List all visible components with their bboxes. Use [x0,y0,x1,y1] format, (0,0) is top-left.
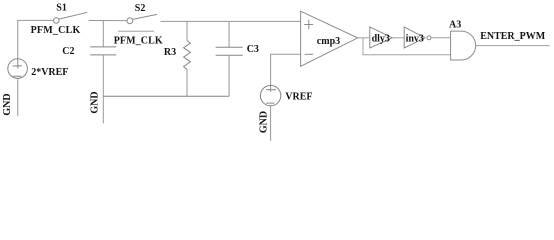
wire: R3 bottom to rail [186,70,188,97]
capacitor C2 [90,47,116,55]
svg-text:C3: C3 [247,44,259,55]
wire: feedback from cmp3 output to AND gate lower input [363,38,451,55]
op-amp comparator cmp3 [301,11,358,66]
AND gate A3 [451,31,476,60]
svg-text:inv3: inv3 [406,33,424,44]
switch S1 [54,12,88,23]
svg-text:PFM_CLK: PFM_CLK [114,36,163,47]
wire: dly3 to inv3 [392,37,404,39]
wire: S2 to cmp3 plus input [161,20,301,22]
wire: C3 bottom to rail [228,55,230,96]
svg-text:C2: C2 [62,46,74,57]
svg-text:2*VREF: 2*VREF [31,67,68,78]
wire: R3 stem from top net [186,21,188,40]
wire: ground stem (middle) [102,96,104,123]
wire: cmp3 output to dly3 [358,37,370,39]
wire: VREF to cmp3 minus input [271,54,301,92]
wire: C2 stem from top net [102,21,104,47]
svg-text:GND: GND [89,91,100,113]
voltage source 2*VREF [8,59,28,79]
wire: A3 output ENTER_PWM [476,45,550,47]
wire: C2 bottom to rail [102,55,104,96]
wire: VREF to ground [270,106,272,141]
svg-text:VREF: VREF [285,92,312,103]
svg-text:dly3: dly3 [372,33,390,44]
svg-text:ENTER_PWM: ENTER_PWM [480,31,546,42]
svg-text:GND: GND [259,111,270,133]
inverter inv3 [404,27,431,48]
voltage source VREF [260,85,280,105]
wire: bottom ground rail [103,95,229,97]
svg-text:S2: S2 [135,3,146,14]
resistor R3 [184,41,191,70]
wire: stub under S2 [118,30,154,32]
svg-text:GND: GND [2,93,13,115]
svg-text:PFM_CLK: PFM_CLK [31,25,81,36]
svg-text:S1: S1 [56,2,67,13]
wire: top net from 2*VREF to S1 [18,20,54,58]
svg-text:cmp3: cmp3 [317,36,340,47]
svg-text:A3: A3 [449,19,461,30]
switch S2 [127,14,157,23]
wire: 2*VREF to ground [17,78,19,116]
svg-text:R3: R3 [164,47,176,58]
wire: S1 to S2 [89,20,127,22]
capacitor C3 [216,47,243,55]
wire: inv3 to AND gate upper input [431,37,450,39]
buffer dly3 [370,27,393,48]
wire: C3 stem from top net [228,21,230,47]
